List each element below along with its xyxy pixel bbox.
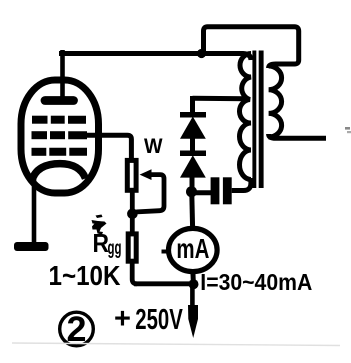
wire: diode bottom lead xyxy=(190,176,195,192)
figure number circle 2 xyxy=(60,312,94,346)
tube plate (anode) bar xyxy=(45,96,74,105)
tube grid row 3 (dashed) xyxy=(32,148,88,156)
wire: wiper loop to node D xyxy=(133,175,164,214)
potentiometer wiper arrow head xyxy=(140,169,152,180)
node A junction dot on plate wire xyxy=(197,49,206,58)
node C junction dot (supply) xyxy=(189,279,199,289)
capacitor C1 plate 2 xyxy=(223,177,232,204)
transformer core bar 2 xyxy=(259,51,264,189)
node B junction dot (diode/cap) xyxy=(186,186,197,197)
+250V feed arrow head xyxy=(188,305,198,338)
small specks right edge xyxy=(345,127,350,130)
svg-text:I=30~40mA: I=30~40mA xyxy=(200,269,312,295)
wire: capacitor to primary bottom xyxy=(232,178,251,191)
wire: meter to node C xyxy=(190,272,196,284)
faint scan line xyxy=(12,343,340,346)
resistor Rgg body xyxy=(128,234,136,261)
transformer core bar 1 xyxy=(252,51,256,189)
node D junction dot (pot/Rgg) xyxy=(127,209,138,220)
wire: top feedback loop to secondary top xyxy=(204,27,299,68)
transformer secondary winding L2 xyxy=(269,66,282,137)
asterisk mark xyxy=(92,215,107,235)
transformer primary winding L1 xyxy=(239,54,251,180)
diode D1 cathode bar xyxy=(180,112,206,118)
tube cathode arc xyxy=(32,164,86,182)
tube plate lead xyxy=(60,50,65,98)
diode D2 triangle xyxy=(180,155,206,177)
potentiometer W body xyxy=(127,160,136,190)
ground xyxy=(14,242,49,251)
diode D2 cathode bar xyxy=(180,150,206,156)
svg-text:+: + xyxy=(114,303,131,335)
wire: grid to potentiometer xyxy=(86,135,131,161)
wire: primary tap to diode string xyxy=(193,96,248,101)
milliammeter M1 circle xyxy=(169,228,218,271)
wire: secondary bottom output xyxy=(269,134,326,138)
wire: node B to capacitor xyxy=(192,190,212,195)
wire: between diodes xyxy=(190,137,195,153)
svg-text:mA: mA xyxy=(176,233,209,264)
capacitor C1 plate 1 xyxy=(211,177,220,204)
diode D1 triangle xyxy=(180,117,206,139)
tube grid row 1 (dashed) xyxy=(32,116,86,124)
wire: bottom rail node C to Rgg xyxy=(134,281,193,286)
wire: Rgg bottom to rail xyxy=(132,261,137,284)
meter left tick xyxy=(162,250,168,254)
wire: node B to meter xyxy=(189,194,195,228)
vacuum tube V1 envelope xyxy=(21,80,99,193)
tube grid row 2 (dashed, control grid) xyxy=(32,131,88,139)
svg-text:250V: 250V xyxy=(135,304,183,336)
wire: diode column top lead xyxy=(190,96,195,115)
svg-text:gg: gg xyxy=(108,238,122,259)
svg-text:1~10K: 1~10K xyxy=(49,260,121,291)
wire: plate to transformer primary top xyxy=(59,54,251,61)
svg-text:W: W xyxy=(144,134,163,158)
+250V feed arrow shaft xyxy=(190,284,195,313)
cathode lead wire xyxy=(32,179,37,244)
wire: node D to Rgg xyxy=(130,192,135,233)
